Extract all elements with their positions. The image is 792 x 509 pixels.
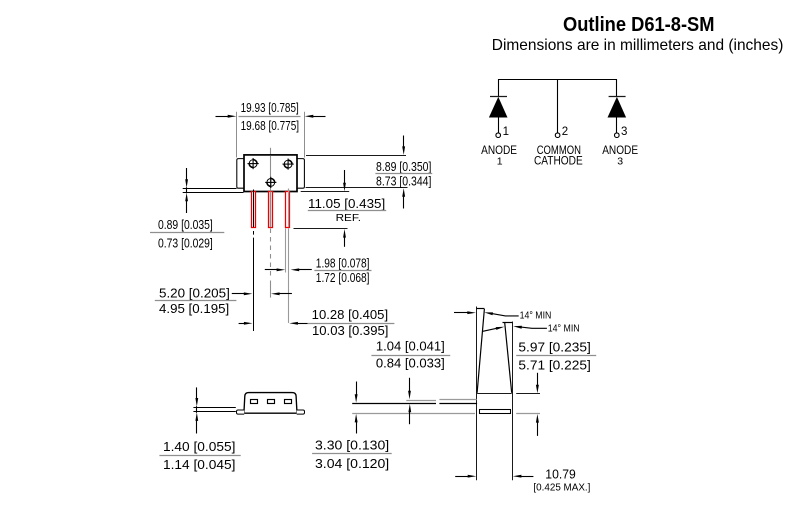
dimension 5.97/5.71 arrow down — [536, 373, 539, 394]
svg-text:1.72 [0.068]: 1.72 [0.068] — [316, 270, 370, 285]
dimension 0.89/0.73 extension line lower — [183, 192, 244, 194]
svg-text:3: 3 — [617, 155, 623, 167]
dimension text 3.30 [0.130] over 3.04 [0.120] — [312, 438, 392, 471]
svg-text:10.28 [0.405]: 10.28 [0.405] — [312, 307, 388, 322]
side view: lead upper line — [193, 407, 235, 409]
angle callout 14 deg MIN lower leader from right — [513, 326, 547, 329]
side view: lead slot 2 — [268, 400, 275, 404]
svg-text:14° MIN: 14° MIN — [520, 310, 552, 321]
dimension 5.20/4.95 arrow left — [232, 292, 253, 295]
svg-text:1.14 [0.045]: 1.14 [0.045] — [163, 457, 235, 472]
svg-text:REF.: REF. — [336, 212, 361, 224]
dimension 8.89/8.73 extension line bottom — [306, 187, 408, 189]
svg-text:14° MIN: 14° MIN — [548, 324, 580, 335]
svg-text:10.79: 10.79 — [545, 467, 576, 482]
dimension text 5.20 [0.205] over 4.95 [0.195] — [155, 285, 237, 316]
wire: diode D2 cathode stub — [616, 79, 618, 96]
label: ANODE 3 — [602, 145, 638, 167]
front view: body centerline inside — [270, 156, 272, 192]
dimension 1.04/0.84 arrow down — [408, 378, 411, 400]
end view: body bottom edge — [477, 393, 512, 395]
front view: package centerline — [270, 148, 272, 192]
dimension 19.93/19.68 extension line left — [236, 112, 238, 158]
svg-text:0.89 [0.035]: 0.89 [0.035] — [158, 217, 213, 232]
dimension 8.89/8.73 arrow down — [402, 136, 405, 156]
dimension 19.93/19.68 arrow right — [305, 115, 326, 118]
front view: target mark top-left — [248, 158, 259, 169]
extension line: lead 1 centerline below tip — [253, 231, 255, 331]
extension line: lead 3 right edge — [288, 228, 290, 323]
dimension 1.40/1.14 arrow down — [195, 387, 198, 406]
svg-text:Outline D61-8-SM: Outline D61-8-SM — [563, 14, 715, 36]
front view: target mark top-right — [283, 159, 294, 170]
dimension 11.05 REF arrow down — [343, 170, 346, 191]
svg-text:11.05 [0.435]: 11.05 [0.435] — [308, 196, 385, 211]
end view: right extension line — [512, 322, 514, 481]
svg-text:5.97 [0.235]: 5.97 [0.235] — [518, 339, 590, 354]
dimension text 8.89 [0.350] over 8.73 [0.344] — [375, 159, 432, 188]
svg-text:0.73 [0.029]: 0.73 [0.029] — [158, 236, 213, 251]
dimension 11.05 REF arrow up — [343, 229, 346, 247]
wire: diode D1 cathode stub — [498, 79, 500, 96]
dimension text 19.93 [0.785] over 19.68 [0.775] — [239, 100, 301, 133]
svg-text:19.68 [0.775]: 19.68 [0.775] — [241, 118, 300, 133]
svg-text:0.84 [0.033]: 0.84 [0.033] — [376, 356, 445, 371]
svg-text:Dimensions are in millimeters: Dimensions are in millimeters and (inche… — [492, 37, 784, 54]
side view: package body outline — [244, 393, 297, 414]
end view: lead top line — [406, 400, 476, 401]
svg-text:1.40 [0.055]: 1.40 [0.055] — [163, 439, 235, 454]
pin 2 terminal — [555, 133, 560, 138]
end view: left extension line — [476, 307, 478, 481]
dimension 8.89/8.73 arrow up — [402, 188, 405, 208]
svg-text:8.89 [0.350]: 8.89 [0.350] — [376, 159, 431, 174]
dimension text 11.05 [0.435] REF. — [308, 196, 386, 224]
svg-text:10.03 [0.395]: 10.03 [0.395] — [312, 323, 388, 338]
dimension text 0.89 [0.035] over 0.73 [0.029] — [150, 217, 224, 251]
side view: lead lower line — [193, 411, 235, 413]
svg-text:8.73 [0.344]: 8.73 [0.344] — [376, 173, 431, 188]
side view: lead slot 3 — [285, 400, 292, 404]
svg-text:4.95 [0.195]: 4.95 [0.195] — [159, 301, 229, 316]
angle callout 14 deg MIN upper leader — [484, 312, 518, 316]
end view: top edge — [477, 308, 485, 310]
dimension 0.89/0.73 arrow down — [185, 168, 188, 188]
dimension 11.05 REF extension line at body bottom — [301, 191, 350, 193]
svg-text:1.98 [0.078]: 1.98 [0.078] — [316, 256, 370, 271]
dimension text 5.97 [0.235] over 5.71 [0.225] — [516, 339, 596, 372]
dimension 5.97/5.71 extension line — [516, 393, 540, 395]
dimension text 1.98 [0.078] over 1.72 [0.068] — [314, 256, 371, 285]
label: COMMON CATHODE — [534, 145, 583, 167]
dimension 11.05 REF extension line at lead tips — [294, 228, 348, 230]
dimension 0.89/0.73 extension line upper — [183, 188, 237, 190]
end view: right shoulder edge — [503, 322, 513, 324]
svg-text:3: 3 — [621, 126, 627, 138]
dimension 1.04/0.84 arrow up — [408, 404, 411, 425]
end view: standoff pad — [480, 410, 511, 414]
lead 2 (middle, highlighted red) — [269, 191, 273, 227]
extension line: lead 3 left edge — [285, 228, 287, 272]
dimension text 10.79 [0.425 MAX.] — [533, 467, 590, 494]
svg-text:1: 1 — [497, 155, 503, 167]
svg-text:19.93 [0.785]: 19.93 [0.785] — [241, 100, 299, 115]
dimension 5.20/4.95 arrow right — [271, 292, 292, 295]
dimension 10.28/10.03 arrow left — [239, 322, 253, 325]
angle callout 14 deg MIN upper arrow left — [454, 311, 476, 314]
label: ANODE 1 — [481, 145, 517, 167]
svg-text:2: 2 — [562, 126, 568, 138]
front view: package body — [244, 155, 297, 192]
dimension text 10.28 [0.405] over 10.03 [0.395] — [308, 307, 395, 338]
dimension 0.89/0.73 arrow up — [185, 187, 188, 213]
end view: lead bottom line — [352, 403, 477, 405]
extension line: lead 2 centerline below tip (dashed) — [270, 229, 272, 298]
end view: seating plane line left — [352, 413, 475, 415]
dimension 1.98/1.72 arrow left — [265, 268, 285, 271]
svg-text:5.20 [0.205]: 5.20 [0.205] — [159, 285, 230, 300]
dimension 1.98/1.72 arrow right — [291, 268, 312, 271]
dimension 19.93/19.68 arrow left — [216, 115, 237, 118]
side view: right tab — [297, 410, 305, 414]
svg-text:5.71 [0.225]: 5.71 [0.225] — [518, 358, 590, 373]
end view: left draft edge — [477, 309, 484, 393]
dimension 1.40/1.14 arrow up — [195, 406, 198, 433]
lead 3 (right, highlighted red) — [286, 189, 290, 228]
end view: seating plane line right — [516, 413, 540, 415]
dimension 19.93/19.68 extension line right — [304, 112, 306, 158]
dimension 5.97/5.71 arrow up — [536, 414, 539, 436]
front view: left mounting tab — [237, 159, 244, 189]
svg-text:3.04 [0.120]: 3.04 [0.120] — [315, 456, 389, 471]
angle callout 14 deg MIN lower leader from left — [483, 327, 505, 332]
front view: right mounting tab — [297, 159, 304, 189]
dimension text 1.40 [0.055] over 1.14 [0.045] — [159, 439, 240, 472]
dimension 10.79 arrow right — [513, 475, 534, 478]
svg-text:1.04 [0.041]: 1.04 [0.041] — [376, 338, 445, 353]
dimension 10.79 arrow left — [455, 475, 476, 478]
wire: pin 2 common cathode drop — [557, 79, 559, 133]
diode D2 (anode 3 to common cathode) — [608, 97, 627, 134]
dimension text 1.04 [0.041] over 0.84 [0.033] — [371, 338, 450, 370]
svg-text:3.30 [0.130]: 3.30 [0.130] — [315, 438, 389, 453]
dimension 8.89/8.73 extension line top — [306, 155, 406, 157]
pin 3 terminal — [615, 133, 620, 138]
dimension 3.30/3.04 arrow down — [355, 382, 358, 403]
dimension 10.28/10.03 arrow right — [289, 322, 307, 325]
pin 1 terminal — [496, 133, 501, 138]
front view: target mark bottom-center — [265, 177, 276, 188]
side view: lead slot 1 — [251, 400, 258, 404]
lead 1 (left, highlighted red) — [252, 190, 256, 228]
diode D1 (anode 1 to common cathode) — [489, 97, 508, 134]
end view: right draft edge — [505, 323, 512, 393]
svg-text:1: 1 — [503, 126, 509, 138]
svg-text:[0.425 MAX.]: [0.425 MAX.] — [533, 482, 590, 493]
svg-text:CATHODE: CATHODE — [534, 155, 583, 167]
wire: common cathode top rail — [498, 79, 617, 81]
side view: left tab — [237, 410, 245, 414]
dimension 3.30/3.04 arrow up — [355, 414, 358, 434]
